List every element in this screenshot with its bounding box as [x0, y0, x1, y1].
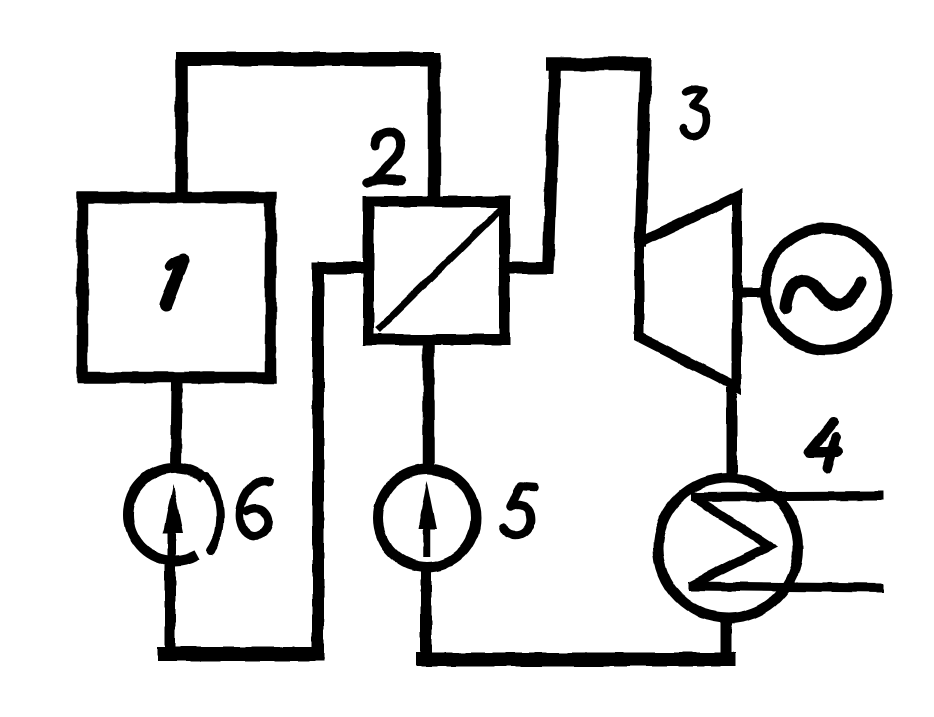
label 3: [683, 89, 706, 137]
label 2: [367, 132, 402, 182]
wire box2 right to steam riser: [505, 262, 553, 274]
pump 6 circle: [128, 468, 204, 561]
cooling water pipe top: [691, 496, 883, 497]
wire pump6 bottom: [165, 565, 176, 659]
wire box1 top to top rail: [175, 59, 188, 199]
wire pump6 top to box1: [176, 382, 177, 470]
boiler box 1: [83, 198, 271, 378]
turbine 3: [639, 196, 737, 387]
label 6: [239, 481, 270, 536]
generator sine symbol: [786, 281, 861, 308]
label 4: [809, 422, 838, 468]
steam riser up: [548, 63, 555, 273]
label 5: [503, 486, 535, 535]
pump 5 circle: [378, 469, 476, 567]
steam downcomer to turbine: [640, 58, 646, 247]
pump 5 arrow: [418, 480, 437, 557]
pump 6 arrow: [163, 484, 183, 561]
generator circle: [765, 228, 887, 350]
cooling water zigzag: [690, 497, 769, 586]
heat exchanger box 2: [369, 202, 505, 340]
wire pump5 top to box2: [423, 344, 435, 472]
pump 6 pen overshoot arc: [206, 476, 220, 551]
wire turbine to condenser: [727, 388, 738, 477]
return downcomer x318: [312, 263, 324, 659]
steam top rail: [546, 57, 649, 71]
label 1: [166, 260, 183, 305]
bottom left rail: [157, 647, 324, 661]
wire turbine to generator: [737, 287, 768, 297]
condenser 4: [658, 478, 798, 618]
wire pump5 bottom: [421, 566, 432, 664]
bottom right rail: [416, 653, 736, 667]
wire condenser bottom: [721, 618, 732, 662]
cooling water pipe bottom: [688, 586, 883, 588]
wire box2 left: [318, 262, 364, 274]
wire top rail to box2 top: [428, 53, 441, 201]
wire top rail left: [176, 52, 434, 66]
box2 diagonal: [378, 207, 503, 330]
